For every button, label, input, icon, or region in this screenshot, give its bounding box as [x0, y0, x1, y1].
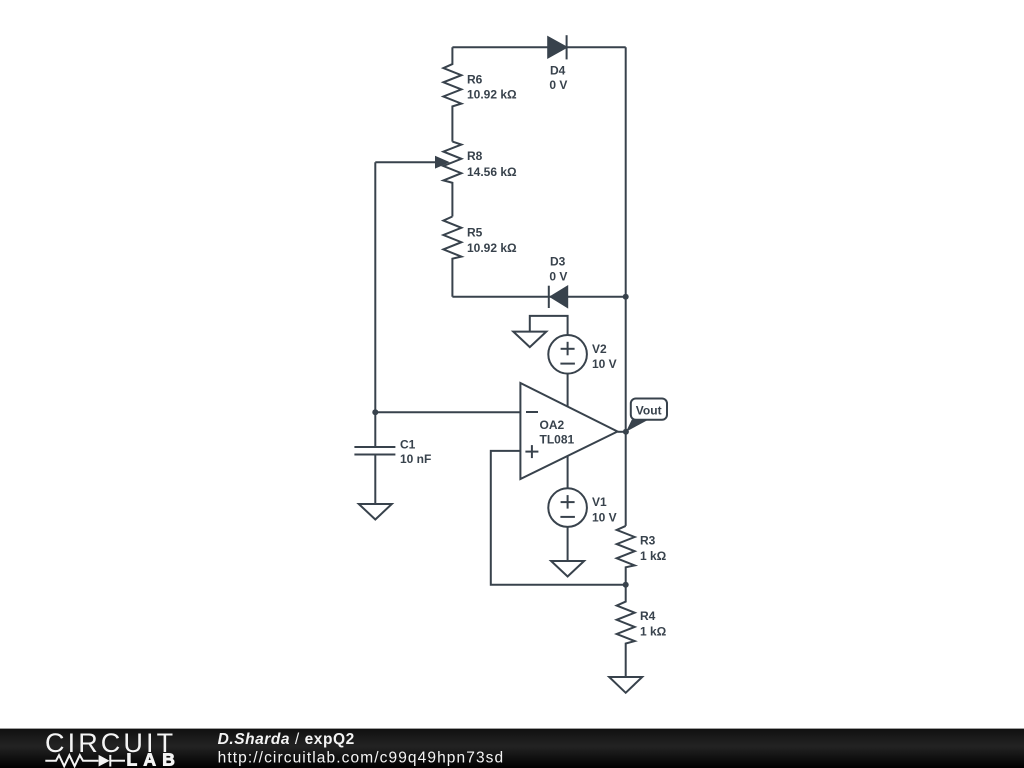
wire top from R6 to right rail: [452, 46, 625, 48]
capacitor C1: [354, 412, 431, 503]
resistor R8 (potentiometer): [443, 142, 517, 217]
svg-text:1 kΩ: 1 kΩ: [640, 549, 667, 563]
svg-text:http://circuitlab.com/c99q49hp: http://circuitlab.com/c99q49hpn73sd: [218, 750, 505, 767]
svg-text:1 kΩ: 1 kΩ: [640, 625, 667, 639]
svg-text:V2: V2: [592, 342, 607, 356]
svg-text:10 V: 10 V: [592, 511, 617, 525]
resistor R3: [617, 526, 667, 585]
logo resistor-diode glyph: [45, 755, 125, 767]
svg-text:14.56 kΩ: 14.56 kΩ: [467, 165, 517, 179]
svg-text:D3: D3: [550, 254, 566, 268]
ground at R4: [609, 677, 642, 693]
svg-text:10.92 kΩ: 10.92 kΩ: [467, 88, 517, 102]
svg-text:Vout: Vout: [636, 404, 662, 418]
R8 wiper arrow: [375, 157, 447, 167]
voltage source V1: [548, 488, 616, 527]
wire op-amp V- pin to V1: [567, 456, 569, 489]
wire bottom loop R5 to right rail: [452, 296, 625, 298]
svg-text:R4: R4: [640, 609, 656, 623]
net flag Vout: [626, 399, 667, 432]
svg-text:V1: V1: [592, 495, 607, 509]
diode D4: [548, 35, 567, 92]
ground at V2: [513, 332, 546, 348]
resistor R4: [617, 585, 667, 677]
svg-text:0 V: 0 V: [549, 269, 567, 283]
svg-text:10 V: 10 V: [592, 357, 617, 371]
wire wiper to inverting node: [374, 162, 376, 412]
logo CIRCUIT: [45, 728, 176, 758]
logo LAB: [127, 750, 182, 768]
wire inverting input: [375, 411, 520, 413]
svg-text:TL081: TL081: [540, 433, 575, 447]
diode D3: [549, 254, 568, 308]
resistor R5: [443, 217, 517, 297]
svg-text:LAB: LAB: [127, 750, 182, 768]
svg-text:10 nF: 10 nF: [400, 452, 431, 466]
svg-text:C1: C1: [400, 437, 416, 451]
node inverting input / C1: [372, 409, 378, 415]
node R3/R4/feedback: [623, 582, 629, 588]
voltage source V2: [548, 335, 616, 374]
resistor R6: [443, 47, 517, 141]
op-amp OA2: [520, 383, 617, 479]
svg-text:D.Sharda / expQ2: D.Sharda / expQ2: [218, 731, 355, 748]
wire V2 minus to op-amp V+ pin: [567, 374, 569, 407]
svg-text:D4: D4: [550, 64, 566, 78]
svg-text:R6: R6: [467, 73, 483, 87]
footer url: [218, 750, 505, 767]
wire non-inverting feedback loop: [491, 451, 626, 585]
wire V1 to ground: [567, 527, 569, 561]
wire right rail: [625, 47, 627, 526]
footer author line: [218, 731, 355, 748]
wire op-amp output stub: [618, 431, 626, 433]
node output: [623, 429, 629, 435]
svg-text:R5: R5: [467, 225, 483, 239]
svg-text:0 V: 0 V: [549, 78, 567, 92]
svg-text:10.92 kΩ: 10.92 kΩ: [467, 241, 517, 255]
svg-text:OA2: OA2: [540, 418, 565, 432]
footer bar: [0, 729, 1024, 768]
ground at V1: [551, 561, 584, 577]
svg-text:R8: R8: [467, 149, 483, 163]
wire hook V2 plus to ground: [530, 316, 568, 335]
node at D3 wire and right rail: [623, 294, 629, 300]
svg-text:R3: R3: [640, 534, 656, 548]
ground at C1: [359, 504, 392, 520]
